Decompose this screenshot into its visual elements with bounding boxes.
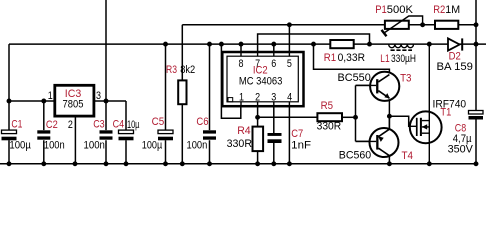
node dot gnd C2	[41, 161, 46, 166]
node dot bases R5	[353, 115, 358, 120]
svg-text:100n: 100n	[44, 140, 65, 152]
potentiometer P1 body	[382, 16, 423, 36]
svg-text:C4: C4	[113, 119, 125, 131]
svg-text:7805: 7805	[63, 99, 84, 111]
svg-text:R3: R3	[166, 64, 177, 76]
node dot gnd pin4	[287, 161, 292, 166]
svg-text:T4: T4	[402, 150, 414, 162]
svg-text:R2: R2	[433, 4, 445, 16]
node dot gnd C6	[207, 161, 212, 166]
wire T4 base lead	[356, 140, 377, 142]
svg-text:2: 2	[68, 119, 73, 131]
IC U2 MC34063 outer box	[222, 52, 303, 106]
svg-text:1: 1	[239, 92, 244, 104]
wire feedback line pin5 to R3 and P1	[182, 24, 385, 26]
regulator IC3 7805	[55, 85, 94, 116]
node dot C6 top	[207, 42, 212, 47]
svg-text:C5: C5	[152, 116, 165, 128]
svg-text:T3: T3	[400, 73, 411, 85]
wire IC2 pin8	[240, 44, 242, 56]
capacitor C4 10u electrolytic	[119, 130, 134, 140]
node dot gnd T1 source	[427, 161, 432, 166]
capacitor C3 100n	[100, 130, 113, 139]
svg-text:2: 2	[255, 92, 260, 104]
svg-text:C1: C1	[11, 118, 22, 130]
wire left input vertical (through C1 position)	[8, 44, 10, 164]
node dot gnd C8	[474, 161, 479, 166]
capacitor C2 100n	[37, 130, 50, 139]
svg-text:350V: 350V	[448, 144, 474, 156]
svg-text:P1: P1	[375, 4, 387, 16]
wire T4 collector to ground	[388, 156, 390, 164]
node dot gnd C4	[124, 161, 129, 166]
svg-text:1nF: 1nF	[291, 139, 311, 151]
wire bases vertical T3 T4	[355, 85, 357, 141]
svg-text:6: 6	[271, 58, 276, 70]
svg-text:8: 8	[239, 58, 244, 70]
svg-text:100n: 100n	[84, 139, 105, 151]
wire C2 branch	[43, 101, 45, 164]
node dot C2 top	[41, 99, 46, 104]
svg-text:BA 159: BA 159	[437, 61, 473, 73]
svg-text:3: 3	[271, 92, 276, 104]
wire C6 branch	[209, 44, 211, 164]
node dot gnd C3	[104, 161, 109, 166]
node dot gnd C5	[163, 161, 168, 166]
node dot T3 collector branch	[311, 42, 316, 47]
svg-text:BC560: BC560	[339, 150, 371, 162]
wire 5V off-page vertical / C3 branch	[105, 0, 107, 164]
svg-text:L1: L1	[380, 53, 389, 65]
node dot gnd C7	[271, 161, 276, 166]
svg-text:C2: C2	[46, 119, 58, 131]
node dot gnd R4	[255, 161, 260, 166]
diode D2 BA159	[448, 38, 463, 50]
svg-text:4: 4	[287, 92, 292, 104]
svg-text:500K: 500K	[387, 4, 414, 16]
node dot R2 output	[474, 22, 479, 27]
resistor R3 8k2	[178, 80, 186, 104]
transistor T3 BC550	[356, 72, 400, 101]
node dot gnd T4	[387, 161, 392, 166]
svg-text:MC 34063: MC 34063	[239, 76, 283, 88]
node dot gnd R3	[180, 161, 185, 166]
capacitor C8 4,7u electrolytic	[469, 111, 484, 120]
wire IC2 pin5	[288, 25, 290, 56]
svg-text:R5: R5	[321, 100, 333, 112]
wire IC3 pin1 input wire	[9, 100, 55, 102]
inductor L1 330uH	[389, 44, 414, 50]
resistor R4 330R	[253, 127, 264, 152]
svg-text:8k2: 8k2	[180, 64, 195, 76]
node dot pin1 wrap top	[219, 42, 224, 47]
wire output vertical right edge (through C8)	[475, 0, 477, 164]
svg-text:1M: 1M	[445, 4, 460, 16]
svg-text:3: 3	[96, 90, 101, 102]
mosfet T1 IRF740	[409, 44, 442, 164]
wire T3 collector supply	[314, 44, 390, 75]
wire IC2 pin7 to after R1	[258, 34, 370, 56]
svg-text:330R: 330R	[227, 138, 253, 150]
node dot emitters gate	[387, 114, 392, 119]
node dot D2 cathode output	[474, 42, 479, 47]
svg-text:330R: 330R	[317, 120, 342, 132]
wire R5 to bases	[342, 116, 356, 118]
node dot input pin1 IC3	[7, 99, 12, 104]
node dot gnd pin2 IC3	[73, 161, 78, 166]
resistor R1 0,33R	[330, 40, 353, 48]
capacitor C5 100u electrolytic	[158, 130, 173, 140]
svg-text:BC550: BC550	[338, 72, 371, 84]
wire top supply rail	[9, 43, 486, 45]
IC2 pin stubs through outer box	[241, 52, 289, 106]
svg-text:1: 1	[48, 90, 53, 102]
svg-text:10µ: 10µ	[127, 119, 139, 131]
capacitor C1 100u electrolytic	[2, 130, 17, 140]
svg-text:C7: C7	[291, 128, 303, 140]
capacitor C7 1nF	[268, 133, 282, 143]
resistor R2 1M	[435, 21, 458, 29]
wire IC3 pin2 ground	[74, 116, 76, 164]
transistor T4 BC560	[356, 116, 399, 157]
svg-text:100n: 100n	[187, 140, 208, 152]
svg-text:C3: C3	[93, 119, 105, 131]
wire IC2 pin6	[273, 44, 275, 56]
wire IC2 pin4 ground	[288, 102, 290, 164]
node dot gnd C1	[7, 161, 12, 166]
wire T3 base lead	[356, 84, 377, 86]
wire IC3 pin3 output wire	[95, 100, 126, 102]
wire R3 branch vertical	[181, 25, 183, 164]
svg-text:5: 5	[287, 58, 292, 70]
wire P1 right to R2	[409, 24, 435, 26]
wire gate drive to T1	[389, 116, 416, 126]
wire IC2 pin3 to C7	[273, 102, 275, 164]
wire IC2 pin1 wrap-around	[221, 44, 240, 118]
wire bottom ground rail	[0, 163, 476, 165]
node dot pin5 feedback	[287, 22, 292, 27]
svg-text:R1: R1	[324, 52, 336, 64]
svg-text:100µ: 100µ	[142, 140, 162, 152]
node dot pin8	[239, 42, 244, 47]
node dot R5 pin2	[255, 115, 260, 120]
wire C4 branch	[125, 101, 127, 164]
wire C5 branch	[165, 44, 167, 164]
resistor R5 330R	[317, 113, 342, 121]
node dot pin7 after R1	[367, 42, 372, 47]
wire IC2 pin2 down through R4	[257, 102, 259, 164]
node dot T1 drain	[427, 42, 432, 47]
svg-text:0,33R: 0,33R	[338, 52, 366, 64]
svg-text:100µ: 100µ	[9, 140, 31, 152]
svg-text:330µH: 330µH	[391, 53, 416, 65]
wire R2 right to output	[458, 24, 476, 26]
capacitor C6 100n	[203, 130, 216, 139]
wire T3 emitter to T4 emitter	[388, 98, 390, 129]
node dot C3 top 5V	[104, 99, 109, 104]
node dot pin6	[271, 42, 276, 47]
svg-text:C6: C6	[196, 116, 208, 128]
node dot P1 wiper R2	[420, 22, 425, 27]
wire IC2 pin2 to R5	[258, 116, 318, 118]
svg-text:T1: T1	[440, 107, 451, 119]
node dot C5 top	[163, 42, 168, 47]
svg-text:R4: R4	[237, 125, 251, 137]
